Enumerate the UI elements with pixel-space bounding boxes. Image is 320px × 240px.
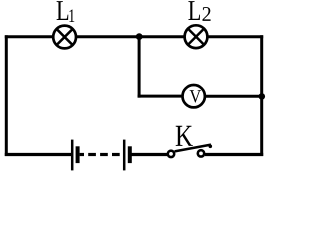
switch K lever tip knob [209, 145, 213, 149]
wire: vertical drop from top junction to voltmeter branch [138, 37, 141, 98]
wire: bottom-left horizontal to battery [5, 153, 72, 156]
wire: right vertical rail [260, 35, 263, 156]
label L1 [57, 1, 69, 20]
voltmeter V [183, 85, 205, 107]
wire: bottom horizontal from switch to right rail [205, 153, 263, 156]
switch K right contact [198, 150, 204, 156]
battery cell 2 long plate [123, 140, 126, 171]
node junction dot top [136, 33, 143, 40]
wire: voltmeter branch right horizontal [205, 95, 263, 98]
switch K lever [175, 145, 211, 152]
wire: dashed link between battery cells [80, 153, 120, 156]
wire: top-left horizontal from left rail to lamp L1 [5, 35, 54, 38]
wire: left vertical rail [5, 35, 8, 156]
battery cell 1 long plate [71, 140, 74, 171]
label L2 [188, 1, 200, 20]
lamp L2 [185, 25, 208, 48]
wire: top-right horizontal from L2 to right rail [207, 35, 264, 38]
label V inside voltmeter [190, 90, 201, 103]
wire: top middle between L1 and L2 [76, 35, 186, 38]
switch K left contact [168, 151, 174, 157]
wire: voltmeter branch left horizontal [138, 95, 184, 98]
battery cell 2 short plate [128, 146, 132, 163]
node junction dot right rail [259, 93, 266, 100]
label K [176, 126, 193, 146]
lamp L1 [53, 26, 76, 49]
wire: bottom horizontal from battery to switch [132, 153, 169, 156]
battery cell 1 short plate [76, 146, 80, 163]
